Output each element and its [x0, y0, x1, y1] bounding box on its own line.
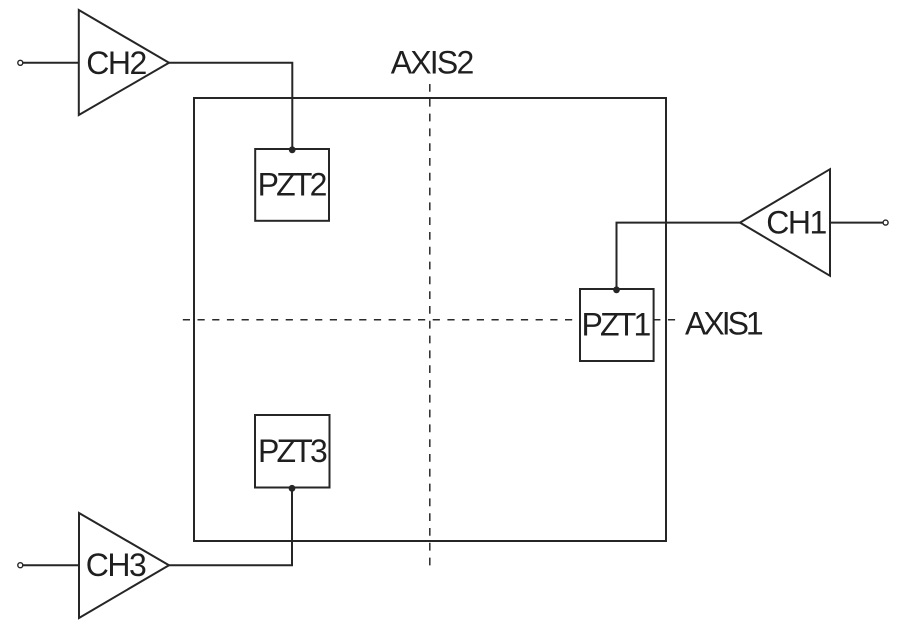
wire CH1 output to PZT1	[617, 223, 741, 289]
svg-text:PZT2: PZT2	[258, 167, 327, 203]
terminal CH3 input	[18, 563, 23, 568]
svg-text:PZT1: PZT1	[581, 306, 650, 342]
svg-text:AXIS2: AXIS2	[391, 45, 474, 81]
wire CH2 input	[23, 62, 79, 64]
svg-text:CH2: CH2	[86, 45, 146, 81]
actuator PZT2	[255, 149, 329, 221]
terminal CH2 input	[18, 60, 23, 65]
svg-text:CH3: CH3	[86, 547, 146, 583]
junction dot PZT2	[289, 146, 296, 153]
junction dot PZT3	[289, 485, 296, 492]
axis AXIS2 dashed vertical line	[429, 84, 431, 566]
amplifier CH2	[79, 10, 169, 115]
svg-text:AXIS1: AXIS1	[685, 306, 763, 342]
wire CH1 input	[830, 222, 883, 224]
plate body	[194, 98, 666, 541]
amplifier CH1	[740, 169, 830, 276]
terminal CH1	[883, 220, 888, 225]
svg-text:CH1: CH1	[766, 205, 826, 241]
wire CH3 input	[23, 564, 79, 566]
svg-text:PZT3: PZT3	[258, 433, 327, 469]
wire CH3 output to PZT3	[169, 488, 292, 565]
actuator PZT3	[255, 415, 330, 488]
wire CH2 output to PZT2	[169, 63, 292, 149]
axis AXIS1 dashed horizontal line	[183, 319, 676, 321]
actuator PZT1	[580, 289, 654, 361]
amplifier CH3	[79, 513, 169, 618]
junction dot PZT1	[613, 286, 620, 293]
